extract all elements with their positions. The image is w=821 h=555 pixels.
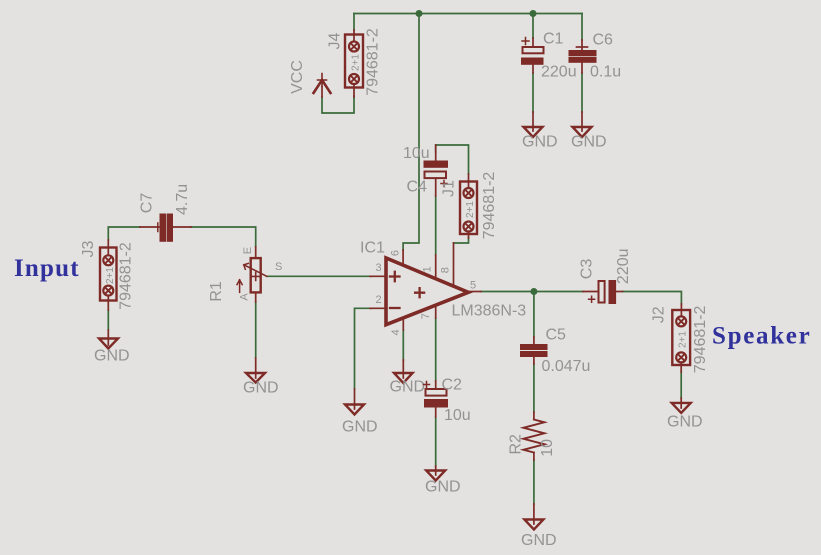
wire pin 2 to GND xyxy=(355,308,372,389)
svg-text:2+1: 2+1 xyxy=(351,54,362,71)
svg-text:C5: C5 xyxy=(546,327,567,344)
svg-text:GND: GND xyxy=(243,380,279,397)
svg-text:IC1: IC1 xyxy=(360,240,385,257)
wire C5 to R2 xyxy=(533,364,535,412)
svg-text:4.7u: 4.7u xyxy=(174,184,191,215)
wire C1 to GND xyxy=(532,73,534,112)
svg-text:J3: J3 xyxy=(80,240,97,257)
svg-text:794681-2: 794681-2 xyxy=(365,28,382,96)
svg-text:10u: 10u xyxy=(444,407,471,424)
wire pin 7 to C2 xyxy=(435,318,437,381)
wire J1 bottom to pin 8 xyxy=(454,238,469,243)
ground under pin 2 xyxy=(345,389,364,415)
wire output to C5 xyxy=(533,292,535,338)
capacitor C3 xyxy=(583,281,623,304)
svg-text:2: 2 xyxy=(376,294,382,306)
svg-text:C4: C4 xyxy=(407,179,428,196)
ground under R1 xyxy=(246,358,265,383)
svg-text:2+1: 2+1 xyxy=(105,267,116,284)
svg-text:C6: C6 xyxy=(593,32,614,49)
capacitor C2 xyxy=(424,381,448,417)
svg-text:GND: GND xyxy=(94,348,130,365)
wire rail to C1 xyxy=(532,14,534,39)
svg-text:J2: J2 xyxy=(651,306,668,323)
wire J3 to C7 xyxy=(108,227,140,240)
capacitor C5 xyxy=(521,337,548,364)
svg-text:2+1: 2+1 xyxy=(678,331,689,348)
resistor R2 xyxy=(523,412,544,460)
potentiometer R1 xyxy=(237,247,267,302)
svg-text:J1: J1 xyxy=(441,180,458,197)
svg-text:7: 7 xyxy=(420,313,432,319)
svg-text:2+1: 2+1 xyxy=(465,201,476,218)
svg-text:C7: C7 xyxy=(139,193,156,214)
capacitor C1 xyxy=(522,38,544,74)
wire VCC top rail xyxy=(354,13,582,15)
connector J1 xyxy=(454,174,478,286)
svg-text:6: 6 xyxy=(389,250,401,256)
svg-text:8: 8 xyxy=(439,267,451,273)
op-amp IC1 xyxy=(370,250,481,330)
svg-text:3: 3 xyxy=(376,262,382,274)
svg-text:0.047u: 0.047u xyxy=(542,358,591,375)
wire C4 J1 top net xyxy=(436,145,469,174)
svg-text:GND: GND xyxy=(667,414,703,431)
svg-text:GND: GND xyxy=(342,419,378,436)
node junction dot right xyxy=(530,10,537,17)
ground under C1 xyxy=(524,112,543,137)
wire VCC arrow to J4 bottom xyxy=(322,96,354,113)
connector J4 xyxy=(345,30,363,97)
wire C2 to GND xyxy=(435,417,437,466)
svg-text:794681-2: 794681-2 xyxy=(481,172,498,240)
svg-text:R1: R1 xyxy=(208,281,225,302)
svg-text:5: 5 xyxy=(470,280,476,292)
capacitor C6 xyxy=(569,40,596,73)
wire C6 to GND xyxy=(581,73,583,112)
wire J3 bottom to GND xyxy=(107,310,109,330)
ground under J2 xyxy=(672,398,691,413)
wire J4 top stub xyxy=(353,14,355,31)
wire R2 to GND xyxy=(533,460,535,504)
ground under pin 4 xyxy=(394,360,413,383)
capacitor C7 xyxy=(140,214,191,241)
svg-text:C1: C1 xyxy=(543,31,564,48)
svg-text:J4: J4 xyxy=(327,32,344,49)
svg-text:1: 1 xyxy=(421,266,433,272)
svg-text:220u: 220u xyxy=(615,249,632,285)
wire C4 bottom to pin 1 xyxy=(435,196,437,255)
connector J3 xyxy=(100,240,117,310)
wire R1 S to pin 3 xyxy=(267,275,372,277)
wire rail to pin 6 xyxy=(403,14,419,251)
wire pin 5 output to C3 xyxy=(481,291,583,293)
svg-text:10: 10 xyxy=(539,439,556,457)
svg-text:S: S xyxy=(275,261,282,273)
svg-text:GND: GND xyxy=(425,479,461,496)
ground under R2 xyxy=(524,504,543,530)
VCC power symbol xyxy=(314,74,331,98)
svg-text:794681-2: 794681-2 xyxy=(692,305,709,373)
svg-text:220u: 220u xyxy=(541,64,577,81)
svg-text:GND: GND xyxy=(522,134,558,151)
svg-text:GND: GND xyxy=(521,532,557,549)
wire R1 A to GND xyxy=(255,302,257,358)
svg-text:LM386N-3: LM386N-3 xyxy=(452,303,527,320)
node junction dot left xyxy=(416,10,423,17)
svg-text:A: A xyxy=(238,293,250,301)
wire C3 to J2 xyxy=(623,292,682,305)
svg-text:Speaker: Speaker xyxy=(712,323,811,350)
svg-text:10u: 10u xyxy=(403,145,430,162)
wire C7 to R1 E xyxy=(191,227,256,247)
capacitor C4 xyxy=(424,145,448,279)
svg-text:4: 4 xyxy=(390,329,402,335)
ground under C2 xyxy=(426,466,445,481)
ground under J3 xyxy=(99,330,118,349)
ground under C6 xyxy=(573,112,592,137)
svg-text:0.1u: 0.1u xyxy=(590,64,621,81)
svg-text:C2: C2 xyxy=(442,377,463,394)
svg-text:GND: GND xyxy=(390,379,426,396)
svg-text:C3: C3 xyxy=(579,259,596,280)
wire rail to C6 xyxy=(581,14,583,41)
svg-text:VCC: VCC xyxy=(289,60,306,94)
node output junction dot xyxy=(530,288,537,295)
svg-text:Input: Input xyxy=(14,255,80,282)
svg-text:R2: R2 xyxy=(508,434,525,455)
svg-text:E: E xyxy=(242,247,254,254)
wire pin 4 to GND xyxy=(402,330,404,360)
svg-text:GND: GND xyxy=(571,134,607,151)
svg-text:794681-2: 794681-2 xyxy=(117,242,134,310)
connector J2 xyxy=(672,304,690,372)
wire J2 to GND xyxy=(680,372,682,398)
